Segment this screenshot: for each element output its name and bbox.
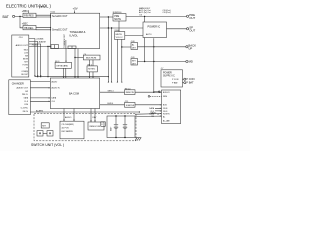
junction — [108, 27, 109, 28]
title ELECTRIC UNIT — [6, 4, 52, 9]
svg-text:PI: PI — [26, 68, 28, 70]
arrowheads — [34, 12, 161, 122]
svg-text:AL: AL — [163, 115, 165, 118]
IC U4 MUTE VOL — [114, 30, 125, 39]
svg-text:SUPPLY IC: SUPPLY IC — [163, 76, 175, 78]
wire stub 750mw — [29, 44, 41, 77]
svg-text:C11: C11 — [125, 101, 129, 103]
wire reg1 out — [36, 15, 51, 17]
node SP OUT — [187, 26, 196, 33]
svg-text:RE CH: RE CH — [23, 111, 29, 113]
svg-text:GEN 4: GEN 4 — [108, 91, 115, 93]
svg-text:COM: COM — [24, 104, 29, 106]
svg-text:F: F — [102, 124, 104, 126]
node BACK UP — [186, 43, 196, 50]
svg-text:TBLK: TBLK — [24, 50, 29, 52]
pin list changer — [21, 91, 29, 113]
wire battery box to connector row2 — [135, 115, 162, 117]
wire power ic to SP OUT — [167, 28, 187, 30]
svg-text:DATA: DATA — [52, 97, 57, 100]
wire AUDIO OUT to tonearm — [29, 45, 51, 47]
svg-text:DATA: DATA — [149, 107, 154, 110]
svg-text:RE 10: RE 10 — [125, 88, 131, 90]
IC U8 CHANGER — [9, 80, 31, 115]
svg-text:ServoDC OUT: ServoDC OUT — [52, 28, 68, 31]
svg-text:+B5C: +B5C — [22, 23, 28, 26]
note text block top right — [139, 7, 171, 17]
svg-text:AUDIO: AUDIO — [65, 116, 72, 119]
speaker symbol 1 — [37, 131, 43, 136]
wire RE1 links — [89, 60, 93, 78]
svg-text:CN (Out): CN (Out) — [163, 11, 171, 14]
wire mute vol to power ic — [125, 35, 143, 37]
svg-text:P BAT: P BAT — [172, 81, 178, 84]
svg-text:KEYBOARD: KEYBOARD — [57, 64, 69, 67]
svg-text:P CON: P CON — [172, 79, 179, 81]
wire P CON — [183, 78, 184, 80]
svg-text:+5V(8M): +5V(8M) — [36, 38, 44, 40]
svg-text:BATT: BATT — [110, 126, 113, 131]
IC U5 POWER SUPPLY IC — [161, 68, 183, 87]
svg-text:PRE CL: PRE CL — [22, 94, 28, 96]
label Fused — [38, 5, 46, 9]
svg-text:MUTE: MUTE — [116, 34, 123, 36]
keyboard KE6 — [55, 61, 71, 68]
remote RE1 — [87, 65, 97, 72]
wire reg2 out — [36, 28, 51, 30]
battery B2 — [123, 116, 127, 138]
svg-text:F/B REG: F/B REG — [24, 15, 34, 18]
svg-text:IC600: IC600 — [114, 30, 120, 32]
svg-text:REM: REM — [163, 96, 167, 98]
junction — [153, 92, 154, 93]
svg-text:TONEARM &: TONEARM & — [70, 30, 86, 34]
power +5V feed — [73, 6, 78, 13]
svg-text:BUS 4: BUS 4 — [108, 103, 115, 105]
node P CON — [184, 77, 195, 81]
junction — [153, 46, 154, 47]
junction — [153, 61, 154, 62]
label SWITCH UNIT — [31, 143, 64, 147]
IC U7 BA-COM — [50, 78, 99, 109]
svg-text:ServoDC OUT: ServoDC OUT — [52, 15, 68, 18]
svg-text:KEY MATRIX: KEY MATRIX — [62, 130, 74, 133]
svg-text:F.CHG: F.CHG — [23, 65, 29, 67]
IC U1 TONEARM & IL/VOL — [51, 11, 100, 48]
svg-text:4m POS: 4m POS — [62, 127, 70, 129]
wire battery box to connector row1 — [135, 111, 162, 114]
svg-text:+B5C: +B5C — [22, 10, 28, 13]
IC U2 PRE MUTE — [113, 12, 126, 21]
junction dots battery rails — [115, 115, 116, 116]
svg-text:POWER IC: POWER IC — [148, 25, 161, 28]
svg-text:L.EX: L.EX — [24, 53, 29, 55]
svg-text:Fused: Fused — [38, 5, 46, 9]
pin box left cluster — [51, 45, 59, 49]
wire power ic down bus — [154, 38, 160, 92]
junction — [19, 16, 20, 17]
wire tonearm bottom drop 2 — [74, 49, 76, 79]
wire dotted rem — [150, 95, 162, 97]
pin AUDIO OUT — [16, 44, 29, 47]
svg-text:D3: D3 — [140, 15, 142, 17]
pin list C10 — [21, 50, 28, 77]
svg-text:AUDIO OUT: AUDIO OUT — [16, 44, 29, 47]
svg-text:CLK: CLK — [52, 101, 56, 103]
junction — [47, 46, 48, 47]
label TONEARM & IL/VOL — [70, 30, 86, 38]
pin AUDIO OUT changer — [16, 86, 28, 89]
svg-text:AUDIO OUT: AUDIO OUT — [16, 86, 28, 89]
wire tonearm bottom drop 3 — [77, 49, 79, 79]
node MD — [186, 60, 193, 64]
svg-text:C10: C10 — [19, 37, 24, 39]
wire BA-COM gen out — [100, 91, 125, 93]
svg-text:AL: AL — [132, 43, 134, 46]
wire C48 to BACK UP — [138, 46, 186, 48]
wire stub ALARM — [29, 40, 46, 76]
svg-text:AUDIO: AUDIO — [52, 80, 58, 83]
wire tonearm bottom drop 1 — [65, 49, 67, 63]
ground chassis — [135, 138, 141, 141]
svg-text:BAT: BAT — [3, 15, 9, 19]
pin label ServoDC OUT 2 — [52, 28, 68, 31]
detector C49 — [131, 57, 138, 65]
pin list right box — [163, 92, 170, 123]
wire C49 to MD — [138, 61, 186, 63]
svg-text:AUTO: AUTO — [146, 33, 152, 36]
switch S1 small box — [41, 123, 49, 128]
svg-text:+5V: +5V — [73, 6, 78, 10]
wire BA-COM bottom drop 4 — [94, 109, 96, 123]
svg-text:BUS: BUS — [163, 105, 167, 107]
svg-text:NJM2100: NJM2100 — [113, 12, 122, 14]
junction — [74, 57, 75, 58]
battery B1 — [110, 116, 119, 138]
svg-text:C4: C4 — [84, 54, 87, 56]
wire audio branch down — [47, 46, 49, 76]
svg-text:IL/VOL: IL/VOL — [70, 34, 79, 38]
svg-text:MUTE: MUTE — [23, 59, 29, 61]
svg-text:BU DET: BU DET — [21, 74, 28, 76]
svg-text:SW: SW — [25, 56, 28, 58]
wire to bus rom — [75, 57, 83, 59]
svg-text:BA-COM: BA-COM — [69, 92, 79, 95]
bus line A — [35, 76, 109, 78]
junction — [108, 16, 109, 17]
wire mute vol down 2 — [121, 39, 123, 82]
wire BAT to regulators — [15, 16, 23, 27]
regulator R1 F/B REG — [22, 10, 36, 17]
svg-text:BUS I/O: BUS I/O — [163, 92, 170, 94]
pin list BA-COM left — [52, 80, 61, 103]
wire drop to power ic — [144, 16, 146, 22]
wire BA-COM bottom drop 2 — [73, 109, 75, 122]
svg-text:SWITCH UNIT (VOL ): SWITCH UNIT (VOL ) — [31, 143, 64, 147]
wire RE10 out — [135, 91, 162, 93]
svg-text:CD CHG(MW): CD CHG(MW) — [62, 124, 74, 126]
svg-text:MD: MD — [189, 60, 193, 64]
svg-text:KE REC: KE REC — [88, 69, 96, 71]
junction — [50, 15, 51, 16]
wire tonearm out2 to power ic — [100, 27, 143, 29]
wire changer data — [30, 97, 50, 99]
pin label ServoDC OUT 1 — [52, 15, 68, 18]
svg-text:KE 6: KE 6 — [55, 61, 60, 63]
svg-text:ALARM: ALARM — [39, 40, 46, 43]
svg-text:KEY: KEY — [132, 60, 137, 62]
svg-text:CHANGER: CHANGER — [12, 82, 24, 85]
svg-text:P BAT: P BAT — [186, 81, 194, 85]
IC U6 system microcomputer C10 — [12, 35, 29, 77]
wire stub +5V(8M) — [29, 38, 44, 76]
wire mute line down — [111, 28, 113, 83]
memory C4 BUS ROM — [83, 54, 100, 60]
svg-text:CL-SYNC: CL-SYNC — [21, 108, 29, 110]
fuse box F1 — [101, 122, 106, 127]
wire BA-COM bottom drop audio — [64, 109, 72, 122]
svg-text:PRE: PRE — [114, 16, 119, 18]
junction — [121, 46, 122, 47]
connector CN right box — [162, 90, 181, 124]
keypad CD CHG KEY MATRIX — [60, 121, 84, 139]
node PRE OUT — [187, 13, 196, 20]
wire C11 out — [135, 104, 162, 106]
IC U3 POWER IC — [143, 22, 167, 38]
svg-text:RE 1: RE 1 — [88, 65, 93, 67]
wire fuse stub — [27, 10, 29, 13]
node BAT terminal — [3, 15, 15, 19]
remocon box — [88, 122, 104, 130]
svg-text:REMOTE: REMOTE — [126, 92, 135, 94]
svg-text:S.METER: S.METER — [126, 105, 135, 107]
svg-text:P CON: P CON — [186, 77, 194, 81]
svg-text:MUTE: MUTE — [114, 19, 121, 21]
dashed switch unit box — [34, 114, 136, 141]
svg-text:SW: SW — [25, 91, 28, 93]
svg-text:REMOCON: REMOCON — [90, 126, 101, 128]
regulator R2 HB REG — [22, 23, 36, 30]
svg-text:DN S: DN S — [163, 111, 168, 113]
svg-text:DET: DET — [132, 47, 137, 49]
wire batt drop — [120, 115, 122, 117]
wire tonearm to pre — [100, 16, 113, 18]
pin box bottom cluster — [68, 46, 76, 48]
svg-text:UP: UP — [188, 46, 192, 50]
speaker symbol 2 — [47, 131, 53, 136]
arrows into right box — [155, 108, 162, 111]
svg-text:KEY: KEY — [42, 125, 47, 127]
wire between speakers — [43, 132, 47, 134]
svg-text:BUS ROM: BUS ROM — [86, 58, 96, 60]
svg-text:OUT: OUT — [189, 29, 195, 33]
wire changer audio out — [30, 87, 50, 89]
wire BA-COM bus out — [100, 103, 125, 105]
wire pre out to PRE OUT — [126, 15, 187, 17]
svg-text:TONEARM OUT: TONEARM OUT — [63, 33, 66, 48]
buffer C11 — [125, 101, 136, 107]
wire mute vol down 1 — [116, 39, 118, 82]
wire to C48 — [122, 46, 131, 48]
label DATA row1 — [149, 107, 154, 118]
svg-text:AUDIO IN: AUDIO IN — [52, 86, 61, 89]
node P BAT — [184, 81, 194, 85]
wire power ic drop to MD row — [144, 38, 146, 62]
svg-text:AL-JAM: AL-JAM — [163, 119, 170, 122]
svg-text:DN B: DN B — [163, 108, 168, 110]
svg-text:DATA: DATA — [24, 96, 29, 99]
svg-text:CL-S: CL-S — [24, 101, 29, 103]
wire pre to mute vol — [118, 21, 120, 32]
svg-text:VOL IC: VOL IC — [116, 37, 124, 39]
wire pre junction down — [107, 17, 109, 83]
junction — [144, 16, 145, 17]
wire changer clk — [30, 100, 50, 102]
svg-text:KEY: KEY — [24, 62, 28, 64]
svg-text:HB REG: HB REG — [24, 27, 33, 30]
wire ALARM — [30, 109, 140, 112]
wire keyboard drops — [64, 68, 66, 78]
detector C48 — [131, 41, 138, 50]
svg-text:RADIO: RADIO — [151, 111, 157, 114]
wire tonearm internal out — [63, 33, 66, 48]
svg-text:Rd BTN: Rd BTN — [163, 114, 170, 116]
battery box — [107, 116, 135, 138]
svg-text:OUT: OUT — [189, 16, 195, 20]
wire changer top link — [30, 81, 50, 83]
svg-text:ALARM: ALARM — [36, 109, 43, 112]
wire P BAT — [183, 82, 184, 84]
wire BA-COM bottom drop key — [91, 109, 97, 123]
buffer RE10 — [125, 88, 136, 94]
svg-text:POWER: POWER — [163, 72, 172, 74]
svg-text:COM(B): COM(B) — [21, 71, 28, 73]
